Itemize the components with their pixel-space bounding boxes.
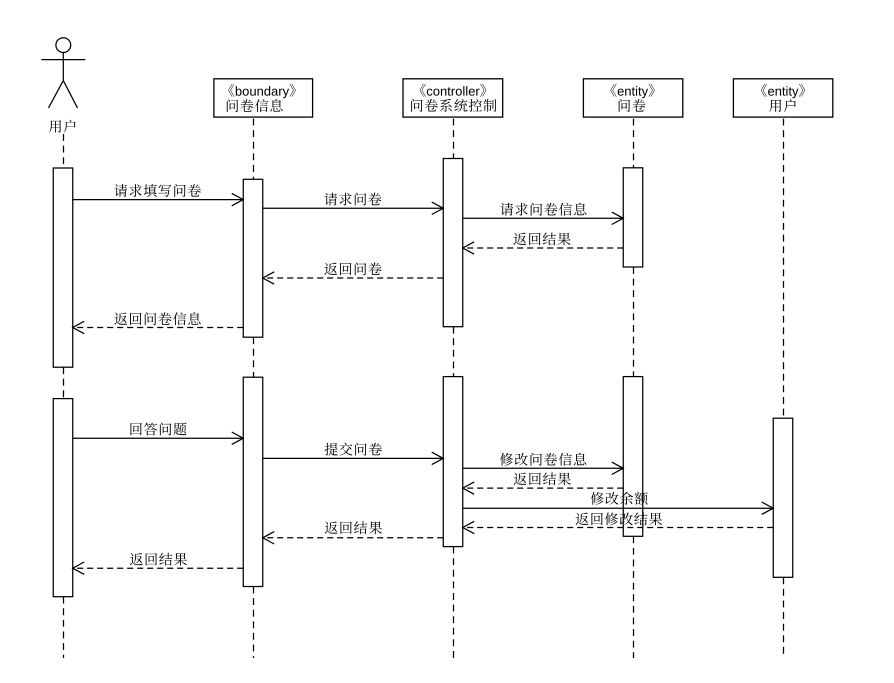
head text 问卷系统控制 <box>411 99 496 112</box>
message 14 返回结果 boundary→User (dashed) <box>73 562 244 574</box>
label 返回结果 @(158.5,558.5) <box>130 553 187 566</box>
lifeline User dashed segments <box>63 134 65 658</box>
head text 问卷 <box>619 99 646 112</box>
activation bar User #1 <box>53 168 73 367</box>
lifeline boundary dashed segments <box>253 119 255 658</box>
head text 《entity》 (用户) <box>761 84 805 99</box>
label 返回结果 @(542.2,478.1) <box>514 472 571 485</box>
message 3 请求问卷信息 (solid) <box>463 212 624 224</box>
lifeline controller dashed segments <box>453 119 455 658</box>
label 修改问卷信息 @(543.3,458.5) <box>500 453 586 466</box>
head text 用户 (entity) <box>769 99 796 112</box>
head text 《controller》 <box>420 84 487 97</box>
lifeline entity用户 dashed segments <box>783 119 785 658</box>
label 回答问题 @(158.0,428.3) <box>130 422 186 435</box>
message 11 修改余额 (solid) <box>463 502 774 514</box>
activation bar controller #2 <box>443 377 463 547</box>
activation bar entity用户 #1 <box>773 418 793 577</box>
activation bar entity问卷 #2 <box>623 377 643 537</box>
label 请求问卷 @(352.9,198.4) <box>324 193 381 206</box>
message 1 请求填写问卷 (solid) <box>73 193 244 205</box>
message 9 修改问卷信息 (solid) <box>463 462 624 474</box>
message 10 返回结果 (dashed) <box>463 482 624 494</box>
lifeline entity问卷 dashed segments <box>633 119 635 658</box>
label 提交问卷 @(353.3,448.5) <box>325 443 382 456</box>
label 返回结果 @(542.0,238.2) <box>514 232 571 245</box>
label 请求问卷信息 @(543.5,208.5) <box>500 203 586 216</box>
label 返回结果 @(353.3,527.0) <box>325 521 382 534</box>
label 返回问卷 @(352.9,268.2) <box>324 262 381 275</box>
activation bar boundary #1 <box>243 179 263 337</box>
head text 问卷信息 <box>227 99 283 112</box>
message 8 提交问卷 (solid) <box>263 452 444 464</box>
label 返回问卷信息 @(157.6,318.0) <box>114 312 200 325</box>
activation bar entity问卷 #1 <box>623 168 643 267</box>
activation bar boundary #2 <box>243 377 263 586</box>
message 6 返回问卷信息 (dashed) <box>73 321 244 333</box>
head text 《entity》 (问卷) <box>610 84 654 99</box>
activation bar User #2 <box>53 399 73 597</box>
message 7 回答问题 (solid) <box>73 432 244 444</box>
actor User stick figure <box>41 38 85 108</box>
message 5 返回问卷 (dashed) <box>263 272 444 284</box>
label 请求填写问卷 @(157.6,189.8) <box>114 184 201 197</box>
lifeline head box controller 问卷系统控制 <box>403 79 503 117</box>
message 12 返回修改结果 (dashed) <box>463 521 774 533</box>
lifeline head box entity 用户 <box>733 79 832 117</box>
message 2 请求问卷 (solid) <box>263 202 444 214</box>
message 4 返回结果 (dashed) <box>463 242 624 254</box>
head text 《boundary》 <box>228 84 296 99</box>
activation bar controller #1 <box>443 159 463 327</box>
lifeline head box entity 问卷 <box>583 79 682 117</box>
message 13 返回结果 controller→boundary (dashed) <box>263 532 444 544</box>
lifeline head box boundary 问卷信息 <box>214 79 313 117</box>
label 修改余额 @(619.2,497.7) <box>591 492 648 505</box>
actor label 用户 <box>49 120 76 133</box>
label 返回修改结果 @(618.9,518.2) <box>576 512 663 525</box>
